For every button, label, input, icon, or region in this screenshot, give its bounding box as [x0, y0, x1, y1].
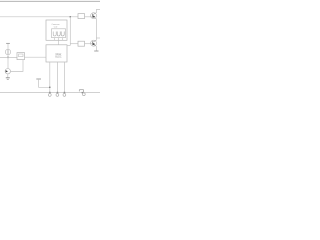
resistor R2 — [78, 41, 85, 46]
terminal stub C — [63, 93, 65, 94]
block U2 driver box — [46, 45, 67, 62]
svg-text:BLDC: BLDC — [55, 57, 61, 59]
node junction left — [7, 57, 8, 58]
wire U1 common to U2 — [57, 40, 59, 45]
wire R1 to Q1 base — [85, 16, 93, 18]
ground symbol left — [6, 78, 10, 80]
coil L3 — [61, 32, 64, 36]
coil pins to box bottom — [54, 38, 56, 41]
block right pin wire — [67, 44, 70, 46]
wire T2 down and right — [39, 79, 50, 87]
wire node down to source — [7, 57, 9, 68]
switch SW1 on rail — [79, 90, 85, 96]
wire Q1 drain up and right off-sheet — [96, 10, 100, 14]
coil L2 — [57, 32, 60, 37]
wire vertical from W1 junction down — [69, 17, 71, 46]
wire R2 to Q2 base — [85, 43, 93, 45]
node junction on W1 — [70, 16, 71, 17]
wire Q1 emitter down to Q2 collector — [95, 19, 97, 41]
ammeter / current source CS1 — [5, 49, 10, 54]
ground terminal bar for Q2 — [94, 50, 98, 52]
wire ammeter to node — [7, 55, 9, 58]
source V1 — [5, 69, 10, 74]
fuse / sensor F1 — [17, 53, 25, 60]
top window border line — [0, 0, 100, 2]
wire W1 gate bus top — [0, 16, 78, 18]
power terminal T at left top — [6, 42, 10, 44]
wire fuse to block — [25, 56, 47, 58]
terminal circle C — [63, 94, 66, 97]
wire terminal to ammeter — [7, 43, 9, 49]
block U1 motor symbol box — [46, 20, 67, 40]
coil box — [52, 29, 66, 38]
terminal circle A — [48, 94, 51, 97]
terminal circle B — [56, 94, 59, 97]
wire branch right off-sheet at y38 — [96, 37, 100, 39]
power terminal T2 — [36, 78, 41, 80]
transistor Q1 — [91, 13, 97, 19]
block bottom pin wires — [49, 62, 51, 93]
coil L1 — [53, 32, 56, 37]
wire Q2 emitter down — [95, 46, 97, 51]
terminal stub B — [56, 93, 58, 94]
wire source right then up to fuse bottom pin — [11, 60, 24, 72]
svg-text:Motor: Motor — [56, 53, 62, 56]
bottom rail wire — [0, 92, 100, 94]
resistor R1 — [78, 14, 85, 19]
node dots on rail — [49, 92, 51, 94]
svg-text:Coil: Coil — [54, 26, 58, 28]
wire horizontal to R2 — [70, 43, 78, 45]
wire source to ground — [7, 74, 9, 78]
terminal stub A — [49, 93, 51, 94]
transistor Q2 — [91, 40, 97, 46]
node junction at 50,87 — [49, 87, 50, 88]
wire left rail y57 — [0, 56, 17, 58]
